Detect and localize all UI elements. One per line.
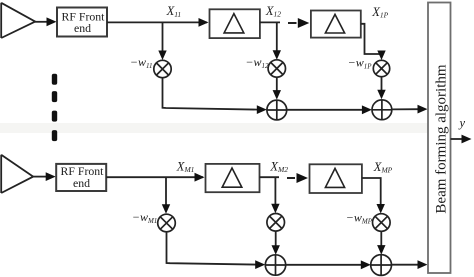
wire S22 to S23	[286, 264, 362, 266]
wire D4 elbow to M23	[362, 178, 381, 205]
wire U2 to D3	[106, 176, 203, 178]
svg-text:−wMP: −wMP	[346, 211, 373, 226]
svg-text:Beam forming algorithm: Beam forming algorithm	[434, 64, 450, 213]
arrowhead into D4	[297, 173, 309, 183]
antenna A1	[1, 3, 35, 38]
svg-text:y: y	[458, 116, 466, 130]
arrowhead into M22	[271, 204, 279, 214]
svg-text:−w12: −w12	[245, 55, 269, 70]
arrowhead into S13 left	[362, 105, 372, 114]
svg-text:−w11: −w11	[130, 55, 153, 70]
arrowhead into U1	[47, 17, 57, 26]
arrowhead into M21	[162, 204, 170, 214]
arrowhead into beam box top entry	[418, 105, 428, 114]
delay D1	[210, 9, 260, 38]
wire M23 to S23	[380, 231, 382, 246]
arrowhead into S12 top	[273, 90, 281, 100]
arrowhead into M11	[158, 51, 166, 61]
arrowhead into S22 left	[255, 260, 265, 269]
wire branch down to M21	[165, 177, 167, 205]
arrowhead into S22 top	[272, 245, 280, 255]
arrowhead into S23 left	[361, 260, 371, 269]
svg-text:X12: X12	[265, 4, 281, 19]
arrowhead into M23	[377, 204, 385, 214]
wire S12 to S13	[287, 109, 363, 111]
ellipsis dots	[52, 74, 57, 141]
arrowhead into S13 top	[377, 90, 385, 100]
wire branch down to M12	[276, 22, 278, 51]
wire antenna A2 to U2	[33, 176, 46, 178]
wire antenna A1 to U1	[35, 21, 47, 23]
wire S23 to beam box	[392, 264, 420, 266]
arrowhead into M13	[377, 51, 385, 61]
RF front end U1	[57, 8, 107, 37]
svg-text:XMP: XMP	[373, 160, 393, 175]
wire D3 to dashed gap	[260, 176, 280, 178]
multiplier M13	[373, 60, 389, 76]
wire M12 to S12	[276, 77, 278, 91]
multiplier M23	[373, 214, 391, 232]
svg-text:−wM1: −wM1	[132, 210, 157, 225]
wire branch down to M22	[274, 177, 276, 204]
wire M21 down and right to S22	[167, 232, 257, 265]
svg-text:end: end	[74, 21, 91, 35]
arrowhead into U2	[46, 172, 56, 181]
wire M22 to S22	[275, 231, 277, 246]
adder S22	[265, 255, 285, 275]
svg-text:XM1: XM1	[176, 159, 195, 174]
arrowhead into D3	[195, 173, 205, 182]
arrowhead into D2	[298, 18, 310, 28]
arrowhead into S12 left	[257, 105, 267, 114]
adder S23	[371, 255, 392, 276]
scan streak band	[0, 123, 428, 133]
output wire y	[451, 138, 464, 140]
delay D3	[206, 164, 260, 192]
antenna A2	[1, 155, 33, 193]
dashed wire into D2	[288, 22, 297, 24]
adder S12	[267, 100, 287, 120]
arrowhead into beam box bottom entry	[418, 260, 428, 269]
multiplier M22	[267, 214, 285, 232]
multiplier M12	[268, 60, 285, 77]
svg-text:X11: X11	[166, 4, 182, 19]
wire D1 to dashed gap	[260, 21, 280, 23]
wire M11 down and right to S12	[163, 78, 259, 110]
svg-text:XM2: XM2	[269, 159, 288, 174]
arrowhead into D1	[199, 18, 209, 27]
delay D2	[311, 11, 361, 38]
wire M13 to S13	[381, 77, 383, 91]
svg-text:X1P: X1P	[371, 5, 388, 20]
delay D4	[310, 164, 362, 193]
wire U1 to D1	[107, 21, 207, 23]
adder S13	[372, 100, 392, 120]
arrowhead into S23 top	[377, 245, 385, 255]
multiplier M11	[154, 60, 171, 77]
arrowhead output y	[462, 135, 472, 144]
RF front end U2	[56, 164, 106, 191]
arrowhead into M12	[273, 50, 281, 60]
svg-text:−w1P: −w1P	[348, 56, 373, 71]
wire D2 elbow to M13	[361, 24, 382, 54]
dashed wire into D4	[287, 177, 295, 179]
svg-text:end: end	[73, 176, 90, 190]
beam forming algorithm box U3	[428, 3, 451, 274]
wire S13 to beam box	[392, 108, 419, 110]
wire branch down to M11	[162, 22, 164, 51]
multiplier M21	[158, 214, 176, 232]
